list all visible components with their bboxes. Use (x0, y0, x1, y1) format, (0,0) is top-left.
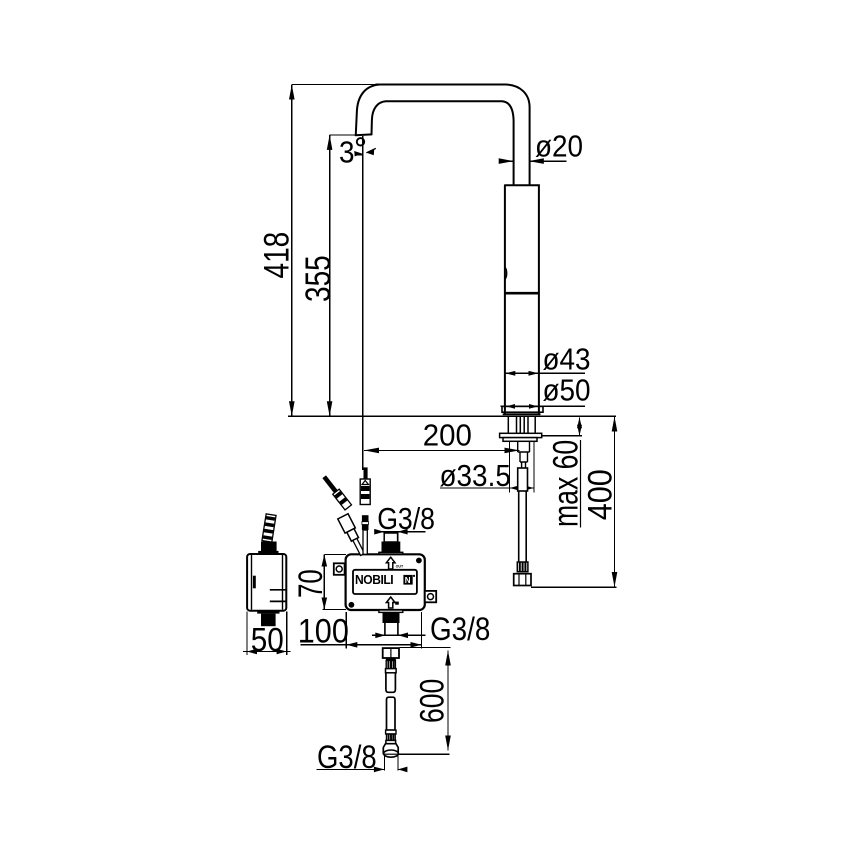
svg-text:100: 100 (298, 612, 349, 650)
svg-text:400: 400 (581, 469, 619, 520)
svg-text:3: 3 (339, 135, 355, 170)
svg-text:ø33.5: ø33.5 (440, 459, 511, 494)
svg-text:G3/8: G3/8 (430, 612, 490, 647)
svg-text:ø20: ø20 (535, 129, 583, 164)
svg-text:355: 355 (298, 255, 338, 302)
svg-text:ø43: ø43 (543, 342, 591, 377)
svg-text:OUT: OUT (396, 564, 404, 568)
svg-text:N: N (405, 576, 411, 585)
svg-text:50: 50 (251, 621, 284, 658)
svg-text:G3/8: G3/8 (377, 502, 435, 536)
svg-text:418: 418 (256, 232, 296, 279)
svg-text:70: 70 (293, 569, 330, 598)
svg-text:max 60: max 60 (546, 440, 585, 527)
svg-text:NOBILI: NOBILI (355, 573, 393, 587)
svg-text:ø50: ø50 (543, 373, 591, 408)
svg-text:G3/8: G3/8 (317, 740, 377, 775)
svg-text:200: 200 (423, 419, 472, 453)
svg-text:600: 600 (413, 679, 451, 723)
